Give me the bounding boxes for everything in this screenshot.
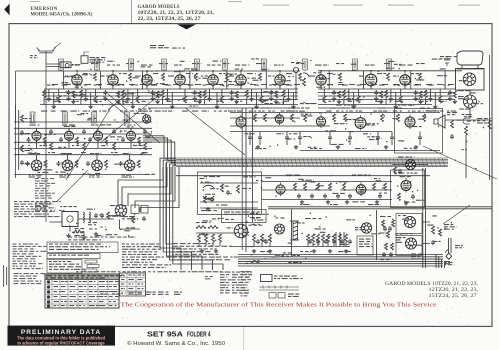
- speaker: [434, 115, 445, 128]
- label text: [72, 101, 78, 102]
- label text: [201, 210, 217, 211]
- wire: [354, 69, 356, 72]
- width-linearity control: [445, 238, 451, 253]
- capacitor: [121, 137, 125, 142]
- wire bus bend: [443, 261, 445, 268]
- label text: [122, 216, 134, 219]
- resistor screen: [419, 73, 422, 81]
- filter capacitor bank: [336, 232, 344, 246]
- label text: [109, 296, 118, 297]
- label text: [305, 218, 321, 219]
- resistor: [333, 234, 336, 242]
- label text: [458, 96, 468, 99]
- label text: [83, 111, 90, 112]
- wire lower bus: [238, 258, 443, 260]
- wire: [249, 132, 251, 146]
- label text: [129, 275, 135, 276]
- wire grid lead: [212, 71, 214, 73]
- wire: [127, 89, 129, 97]
- label text: [65, 76, 74, 77]
- tube AFC: [356, 182, 366, 196]
- wire trunk fan to yoke: [170, 164, 213, 270]
- label text: [275, 102, 284, 103]
- label text: [247, 73, 256, 74]
- label text: [249, 111, 257, 112]
- wire vertical trunk: [425, 168, 427, 268]
- tube audio socket: [62, 160, 73, 171]
- label text: [79, 305, 85, 306]
- label text: [61, 286, 68, 287]
- label text: [464, 116, 472, 117]
- wire: [137, 89, 139, 96]
- wire bus: [44, 99, 298, 101]
- label text: [70, 111, 79, 112]
- wire: [385, 98, 387, 105]
- label text: [418, 119, 423, 120]
- wire link: [217, 84, 223, 86]
- label text: [164, 111, 173, 112]
- wire vertical trunk: [245, 108, 247, 252]
- label text: [467, 121, 476, 122]
- capacitor: [142, 216, 146, 221]
- IF transformer: [195, 59, 200, 70]
- wire link: [107, 84, 113, 86]
- resistor interstage: [83, 143, 86, 150]
- resistor: [117, 91, 120, 98]
- label text: [241, 271, 252, 296]
- tube audio socket: [124, 160, 135, 171]
- label text: [242, 188, 251, 189]
- label text: [310, 148, 322, 149]
- wire trunk fan to yoke: [173, 166, 223, 270]
- capacitor: [450, 134, 454, 139]
- wire cathode lead: [240, 85, 242, 89]
- label text: [25, 118, 31, 119]
- label text: [477, 118, 491, 124]
- label text: [214, 111, 222, 112]
- ground: [414, 145, 418, 149]
- junction: [146, 70, 148, 72]
- label text: [360, 189, 367, 190]
- label text: [222, 85, 228, 86]
- tube output stage: [405, 115, 415, 130]
- ground: [66, 97, 70, 101]
- label text: [155, 70, 158, 71]
- junction: [76, 70, 78, 72]
- label text: [95, 173, 100, 174]
- resistor divider: [196, 226, 206, 229]
- label text: [77, 114, 84, 115]
- tube V3 IF amp 1: [142, 72, 152, 87]
- wire cathode lead: [179, 85, 181, 89]
- capacitor: [323, 194, 327, 199]
- label text: [470, 92, 478, 93]
- label text: [228, 74, 237, 75]
- label text: [402, 233, 413, 234]
- label text: [188, 85, 194, 86]
- tube V1 RF amp: [72, 72, 82, 87]
- label text: [115, 122, 121, 123]
- label text: [121, 279, 125, 280]
- label text: [357, 85, 364, 86]
- capacitor: [431, 240, 435, 245]
- label text: [308, 147, 317, 148]
- label text: [319, 112, 326, 113]
- label text: [58, 95, 67, 96]
- capacitor: [193, 90, 197, 95]
- wire lower bus: [238, 260, 443, 262]
- trunk hatch marks: [180, 158, 445, 166]
- connector labels: [269, 293, 285, 299]
- label text: [303, 136, 310, 137]
- label text: [75, 87, 83, 88]
- IF transformer: [353, 59, 358, 70]
- wire bus: [14, 141, 152, 143]
- label text: [234, 111, 243, 112]
- twin-lead cable: [47, 64, 60, 67]
- label text: [100, 124, 111, 125]
- label text: [134, 113, 145, 114]
- resistor plate: [43, 137, 46, 145]
- label text: [49, 255, 89, 256]
- wire drop: [53, 93, 55, 105]
- label text: [342, 85, 348, 86]
- tube V2 converter: [108, 72, 118, 87]
- label text: [359, 239, 373, 248]
- label text: [196, 222, 210, 223]
- label text: [251, 224, 260, 225]
- label text: [153, 73, 158, 74]
- wire interconnect trunk: [176, 163, 448, 165]
- label text: [252, 218, 258, 219]
- label text: [274, 276, 303, 280]
- wire drop: [328, 71, 330, 89]
- wire bus: [14, 174, 150, 176]
- label text: [416, 63, 425, 64]
- wire vertical trunk: [241, 108, 243, 250]
- label text: [138, 279, 144, 280]
- label text: [355, 148, 367, 149]
- label text: [199, 78, 207, 79]
- ground: [394, 105, 398, 109]
- wire link: [437, 84, 443, 86]
- label text: [32, 169, 46, 170]
- capacitor: [382, 252, 386, 257]
- label text: [393, 76, 399, 77]
- label text: [79, 281, 87, 282]
- label text: [66, 153, 72, 154]
- capacitor: [210, 197, 214, 202]
- label text: [250, 213, 258, 214]
- label text: [408, 244, 417, 245]
- label text: [261, 69, 269, 70]
- resistor: [294, 183, 297, 191]
- label text: [204, 176, 220, 177]
- label text: [53, 101, 61, 102]
- wire: [286, 132, 288, 146]
- label text: [142, 101, 149, 102]
- resistor: [394, 167, 397, 174]
- label text: [81, 152, 86, 153]
- label text: [112, 291, 123, 295]
- label text: [148, 80, 155, 81]
- capacitor bypass: [250, 97, 254, 102]
- tube base symbols in table: [47, 280, 50, 307]
- wire vertical lead: [291, 209, 293, 256]
- label text: [462, 114, 473, 115]
- resistor: [307, 234, 310, 242]
- resistor: [327, 234, 330, 242]
- resistor: [391, 243, 394, 250]
- resistor: [312, 234, 315, 242]
- vertical oscillator box: [391, 170, 425, 208]
- label text: [109, 301, 116, 302]
- resistor: [385, 90, 388, 98]
- resistor: [343, 183, 346, 191]
- label text: [251, 262, 260, 263]
- ground: [52, 105, 56, 109]
- label text: [253, 80, 259, 81]
- label text: [79, 85, 87, 86]
- ground: [448, 97, 452, 101]
- label text: [220, 272, 232, 294]
- label text: [83, 73, 90, 74]
- label text: [79, 301, 86, 302]
- label text: [181, 76, 186, 77]
- label text: [63, 76, 75, 77]
- wire link: [129, 84, 135, 86]
- resistor: [392, 220, 395, 227]
- ground: [345, 200, 349, 204]
- label text: [126, 227, 135, 228]
- wire link: [239, 84, 245, 86]
- label text: [220, 85, 224, 86]
- label text: [260, 240, 271, 241]
- label text: [318, 185, 324, 186]
- wire link: [206, 84, 212, 86]
- IF transformer: [387, 59, 392, 70]
- wire: [67, 155, 69, 160]
- sound IF transformer: [92, 112, 97, 123]
- resistor: [198, 91, 201, 98]
- label text: [365, 65, 375, 66]
- capacitor: [310, 194, 314, 199]
- label text: [35, 178, 55, 199]
- tube V4 IF amp 2: [175, 72, 185, 87]
- label text: [83, 173, 91, 174]
- wire drop: [63, 71, 65, 89]
- resistor interstage: [113, 143, 116, 150]
- wire diagonal leader: [185, 108, 245, 156]
- ground: [89, 105, 93, 109]
- resistor: [385, 243, 388, 250]
- label text: [87, 209, 96, 210]
- ground: [379, 100, 383, 104]
- ground: [374, 97, 378, 101]
- ground: [344, 249, 348, 253]
- wire: [97, 128, 99, 131]
- wire bus bend: [438, 257, 440, 268]
- resistor interstage: [50, 143, 53, 150]
- wire bus: [44, 95, 298, 97]
- wire diagonal leader: [103, 96, 160, 143]
- tube sound IF stage: [127, 129, 136, 143]
- label text: [120, 131, 126, 132]
- wire bus bend: [143, 142, 176, 165]
- label text: [462, 68, 474, 69]
- wire link: [327, 84, 333, 86]
- capacitor HV: [444, 57, 450, 66]
- label text: [30, 55, 38, 58]
- label text: [54, 286, 59, 287]
- wire: [50, 219, 115, 222]
- wire bus: [14, 127, 152, 129]
- wire link: [415, 84, 421, 86]
- capacitor: [59, 137, 63, 142]
- label text: [172, 48, 185, 49]
- wire drop: [100, 71, 102, 89]
- resistor: [304, 183, 307, 191]
- label text: [110, 215, 117, 216]
- wire: [391, 132, 393, 146]
- capacitor: [67, 90, 71, 95]
- label text: [398, 105, 415, 106]
- label text: [93, 111, 101, 112]
- wire: [230, 131, 392, 133]
- label text: [216, 101, 222, 102]
- wire lower bus: [238, 254, 443, 256]
- label text: [378, 108, 386, 109]
- label text: [398, 237, 406, 238]
- label text: [207, 65, 221, 66]
- resistor: [254, 114, 257, 122]
- IF transformer: [223, 59, 228, 70]
- capacitor: [88, 137, 92, 142]
- wire interconnect trunk: [176, 164, 448, 166]
- label text: [184, 68, 197, 69]
- wire grid lead: [146, 71, 148, 73]
- capacitor interstage: [112, 129, 116, 134]
- svg-text:© Howard W. Sams & Co., Inc. 1: © Howard W. Sams & Co., Inc. 1950: [127, 340, 225, 347]
- wire to tuner staircase: [140, 167, 179, 212]
- label text: [201, 182, 210, 183]
- wire: [221, 89, 223, 96]
- label text: [281, 256, 293, 257]
- label text: [380, 259, 392, 260]
- label text: [255, 85, 259, 86]
- label text: [283, 252, 292, 253]
- label text: [444, 262, 454, 265]
- label text: [328, 101, 334, 102]
- label text: [269, 85, 276, 86]
- label text: [129, 293, 136, 294]
- label text: [145, 292, 156, 295]
- label text: [220, 186, 229, 187]
- junction: [320, 70, 322, 72]
- ground: [71, 100, 75, 104]
- label text: [70, 291, 75, 292]
- resistor: [235, 91, 238, 98]
- ground: [326, 200, 330, 204]
- label text: [245, 133, 255, 134]
- label text: [338, 251, 351, 252]
- wire link: [371, 84, 377, 86]
- ground: [312, 249, 316, 253]
- wire bus: [318, 95, 455, 97]
- label text: [376, 138, 382, 139]
- label text: [155, 111, 164, 112]
- label text: [202, 220, 211, 221]
- resistor: [136, 96, 139, 103]
- label text: [166, 101, 171, 102]
- resistor divider: [208, 226, 218, 229]
- resistor: [381, 114, 384, 122]
- capacitor: [340, 239, 344, 244]
- linearity control diamond: [446, 253, 452, 259]
- label text: [338, 82, 342, 83]
- label text: [443, 85, 450, 86]
- label text: [49, 261, 85, 270]
- label text: [331, 144, 343, 145]
- ground: [214, 249, 218, 253]
- resistor screen: [259, 73, 262, 81]
- wire bus bend: [441, 259, 443, 268]
- ground: [269, 97, 273, 101]
- label text: [394, 108, 402, 109]
- wire: [200, 183, 258, 202]
- label text: [327, 73, 333, 74]
- label text: [70, 286, 76, 287]
- label text: [380, 216, 391, 217]
- capacitor: [332, 90, 336, 95]
- wire interconnect trunk: [176, 160, 448, 162]
- label text: [402, 219, 408, 220]
- label text: [66, 91, 74, 92]
- resistor: [221, 184, 224, 192]
- label text: [330, 108, 340, 109]
- wire drop: [410, 71, 412, 89]
- label text: [61, 281, 68, 282]
- wire bus bend: [143, 138, 176, 161]
- label text: [251, 108, 258, 109]
- label text: [124, 93, 136, 94]
- label text: [61, 162, 71, 163]
- wire bus: [318, 88, 455, 90]
- capacitor interstage: [82, 129, 86, 134]
- resistor: [380, 91, 383, 98]
- CRT socket box: [456, 69, 485, 91]
- label text: [395, 234, 402, 235]
- wire link: [338, 84, 344, 86]
- label text: [91, 125, 103, 126]
- capacitor bypass: [389, 97, 393, 102]
- label text: [109, 291, 117, 292]
- resistor: [219, 234, 222, 242]
- resistor screen: [162, 73, 165, 81]
- capacitor: [348, 135, 352, 140]
- coil oscillator: [83, 212, 84, 222]
- label text: [289, 133, 297, 134]
- note box field adjustments: [47, 242, 118, 253]
- wire: [327, 242, 329, 247]
- label text: [174, 71, 183, 72]
- label text: [241, 83, 253, 84]
- wire: [120, 220, 141, 230]
- wire left rail 2: [18, 110, 20, 170]
- misc coil: [128, 292, 142, 295]
- label text: [313, 244, 320, 245]
- label text: [310, 181, 316, 182]
